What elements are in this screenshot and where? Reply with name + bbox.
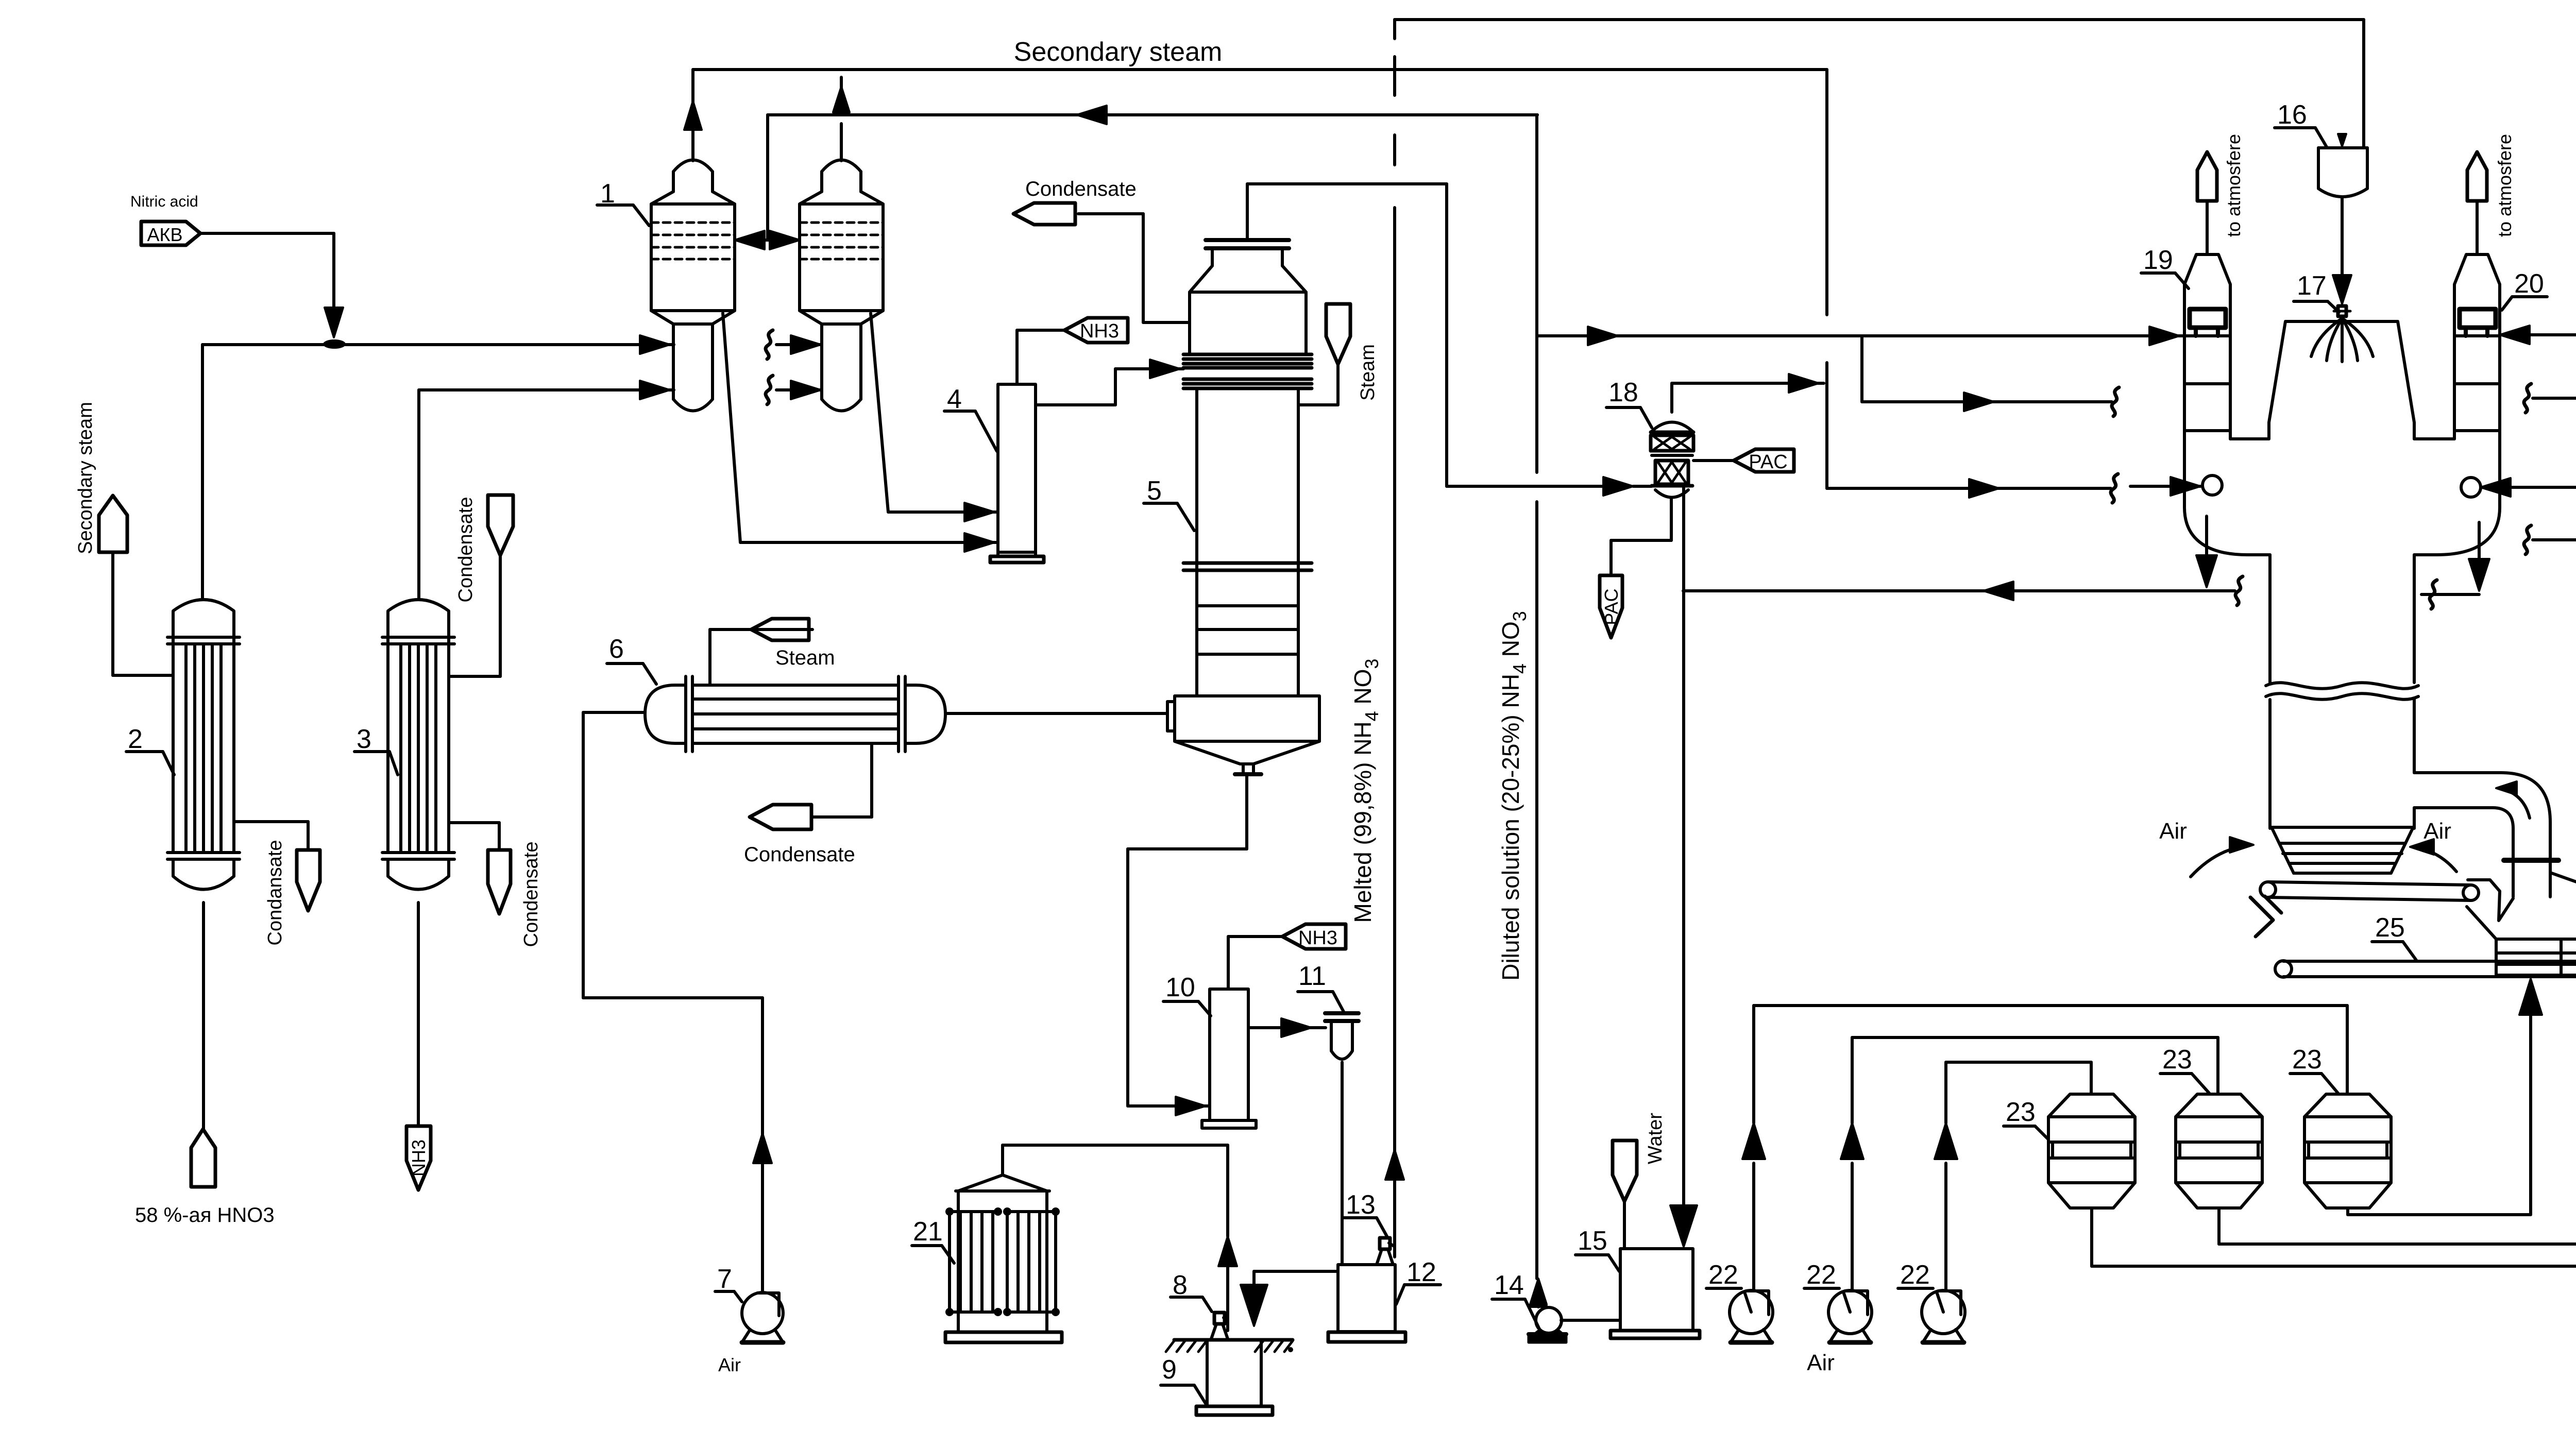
condensate in flag HX3 [488,495,513,555]
svg-text:3: 3 [357,724,371,754]
AKB flag [141,222,200,245]
vapor crossover [735,115,800,249]
NH3 flag vessel10 [1282,924,1346,949]
svg-text:22: 22 [1900,1260,1930,1290]
HX3 condensate flag [488,850,511,914]
column 5 upper body [1190,292,1306,354]
transfer funnel [2468,880,2513,921]
wire HX3 side outlet [449,823,499,850]
pump 22b [1828,1290,1872,1342]
svg-text:58 %-ая HNO3: 58 %-ая HNO3 [135,1204,275,1227]
tank 21 [945,1175,1062,1342]
wire vessel10 to 11 [1248,1018,1326,1037]
pump 22a [1730,1290,1773,1342]
wire HX2 bottom outlet [202,903,205,1129]
vessel 16 [2318,134,2367,197]
svg-text:to atmosfere: to atmosfere [2223,134,2244,237]
squiggle feed reactor 2 a [766,330,773,359]
wire condensate from HX6 [813,743,872,817]
wire pump22b to heater b [1841,1037,2218,1290]
label 21 [912,1217,954,1263]
condensate text b [455,497,477,603]
junction acid [323,339,346,349]
wire hot air to manhole [2130,477,2200,496]
svg-text:PAC: PAC [1601,588,1622,625]
wire vessel11 outlet [1341,1062,1344,1265]
svg-text:5: 5 [1147,476,1162,506]
label 8 [1171,1270,1212,1312]
NH3 flag vessel4 [1064,318,1128,343]
wire steam to column5 [1298,364,1338,405]
air heater 23 c [2304,1094,2391,1208]
label 7 [715,1264,742,1302]
PAC flag bottom [1600,575,1622,638]
wire pump22a to heater c [1742,1006,2347,1290]
label 14 [1492,1270,1539,1329]
vessel 11 [1325,1013,1359,1059]
steam flag HX6 [751,619,835,669]
wire tank9 to tank21 [1003,1145,1237,1331]
svg-text:Steam: Steam [775,646,835,669]
long conveyor 25a [2275,961,2576,977]
svg-text:Air: Air [718,1354,741,1375]
wire condensate column5 [1078,214,1190,322]
svg-text:18: 18 [1608,378,1638,407]
svg-text:7: 7 [717,1264,732,1294]
wire filter18 top [1672,374,1824,412]
label 13 [1344,1190,1387,1236]
svg-text:Condensate: Condensate [1025,178,1137,200]
manhole left [2202,475,2222,495]
svg-text:Air: Air [1807,1350,1835,1375]
label 1 [597,179,649,226]
wire feed reactor 2 b [776,381,822,399]
ITN reactor 1 [651,160,735,411]
ground hatch [1166,1340,1293,1352]
column 5 top flange [1206,240,1289,248]
melter separator [1167,696,1319,741]
wire pump22c to heater a [1935,1062,2091,1290]
label 12 [1396,1257,1440,1304]
svg-text:Air: Air [2424,819,2451,844]
to atmosfere text left [2223,134,2244,237]
HX3 riser [417,390,420,599]
svg-text:21: 21 [913,1217,943,1247]
svg-text:22: 22 [1806,1260,1836,1290]
svg-text:Condensate: Condensate [744,843,855,866]
svg-text:12: 12 [1406,1257,1436,1287]
wire vessel10 NH3 [1228,937,1282,989]
svg-text:16: 16 [2277,100,2307,130]
tank 9 [1196,1340,1273,1415]
label 4 [944,384,997,451]
svg-text:Condensate: Condensate [520,842,542,947]
wire heater a out [2092,1208,2576,1266]
condensate flag HX6 [744,805,855,866]
column 5 flange band B [1183,379,1312,388]
scrubber 20 [2454,152,2500,507]
ITN reactor 2 [800,160,883,411]
sprayer 17 [2311,306,2373,362]
cooler 24 [2467,873,2576,975]
svg-text:2: 2 [128,724,143,754]
svg-text:Condansate: Condansate [264,840,286,946]
right loop upper [2500,326,2576,413]
label 18 [1606,378,1652,428]
squiggle feed reactor 2 b [766,376,773,404]
svg-text:NH3: NH3 [1080,320,1119,342]
svg-text:PAC: PAC [1749,451,1787,473]
wire filter18 bottom [1611,499,1671,575]
svg-text:15: 15 [1578,1226,1607,1256]
wire vessel4 NH3 [1017,330,1064,384]
secondary steam out flag [99,496,127,552]
scrubber 19 [2184,152,2230,507]
column 5 neck [1190,248,1306,292]
tower top plates [2230,437,2454,440]
squiggle hot air line [2111,474,2118,503]
label 9 [1161,1355,1206,1404]
label 22a [1706,1260,1741,1290]
wire NH3 gas to reactor 1 [419,381,674,399]
wire reactor 2 outlet [871,313,998,521]
reactor 2 riser [833,77,850,161]
condensate text HX3 [520,842,542,947]
HX2 condansate flag [297,850,320,911]
cooler air riser 1 [2519,979,2542,1215]
air curved arrow left [2191,837,2253,877]
wire heater b out [2219,1208,2576,1244]
svg-text:23: 23 [2162,1045,2192,1075]
label 23b [2160,1045,2209,1093]
svg-text:NH3: NH3 [408,1139,429,1177]
label 11 [1298,961,1344,1012]
NH3 flag bottom [406,1126,431,1190]
svg-text:25: 25 [2375,913,2405,943]
secondary steam header [693,37,1827,70]
wire secondary steam drop [1827,70,2111,498]
heat exchanger 3 [382,600,454,890]
secondary steam text left [75,402,96,554]
air curved arrow right [2410,839,2456,872]
column 5 flange band A [1183,354,1312,368]
svg-text:22: 22 [1708,1260,1738,1290]
wire HX3 bottom outlet [417,903,420,1126]
svg-text:13: 13 [1346,1190,1376,1220]
wire melt out [1128,774,1247,1115]
svg-text:14: 14 [1494,1270,1524,1300]
tower shoulders [2184,495,2500,555]
pump 22c [1922,1290,1965,1342]
svg-text:Nitric acid: Nitric acid [130,193,198,210]
HNO3 flag [191,1129,215,1187]
column 5 flange band C [1183,563,1312,570]
pump 14 [1529,1307,1566,1342]
wire air pump7 to HX6 [583,712,772,1291]
wire solution to scrubber19 [1537,327,2184,345]
label 5 [1144,476,1194,531]
duct flange [2504,858,2558,863]
label 23c [2290,1045,2338,1093]
label 10 [1163,973,1211,1016]
conveyor under tower [2260,882,2479,900]
wire vessel16 to sprayer [2341,197,2344,198]
tower down arrow right [2469,522,2489,591]
label 22c [1898,1260,1933,1290]
squiggle return line [2235,576,2243,605]
tower stub right [2421,580,2479,609]
vessel 10 [1202,989,1256,1128]
air text tower right [2424,819,2451,844]
label 25a [2372,913,2416,960]
vessel 12 [1328,1265,1405,1342]
label 20 [2502,269,2547,310]
wire reactor 1 outlet [723,313,998,552]
svg-text:17: 17 [2297,271,2327,301]
melt product header to vessel 16 [1395,20,2364,148]
wire condensate to HX3 [449,555,500,676]
heat exchanger 2 [167,600,240,890]
air heater 23 a [2048,1094,2135,1208]
tank 15 [1611,1249,1700,1338]
label 19 [2141,245,2189,288]
duct flow arrow [2496,781,2530,818]
manhole right [2461,478,2481,497]
wire AKB feed [200,233,343,337]
column 5 section lines [1197,606,1298,654]
wire pump14 to tank15 [1561,1319,1620,1322]
water funnel [1613,1140,1637,1249]
wire steam to HX6 [710,629,812,685]
valve 8 [1211,1313,1228,1339]
label 23a [2004,1097,2048,1139]
HX2 riser [201,345,204,599]
svg-text:АКВ: АКВ [147,224,183,245]
steam flag column5 [1326,304,1350,364]
svg-text:10: 10 [1165,973,1195,1002]
air text pumps22 [1807,1350,1835,1375]
label 3 [354,724,398,775]
melter cone [1175,741,1319,774]
svg-text:6: 6 [609,634,624,664]
condansate text HX2 [264,840,286,946]
chute left [2250,896,2281,937]
svg-text:19: 19 [2143,245,2173,275]
steam text column5 [1357,344,1379,401]
svg-text:23: 23 [2292,1045,2322,1075]
svg-text:to atmosfere: to atmosfere [2494,134,2515,237]
svg-text:11: 11 [1298,961,1326,991]
label 6 [607,634,656,684]
wire heater c out [2348,1208,2531,1215]
svg-text:Water: Water [1645,1113,1666,1164]
right loop lower [2524,487,2576,554]
air heater 23 b [2176,1094,2262,1208]
sprayer 17 feed [2333,198,2351,304]
wire HX6 to melter [945,712,1167,715]
label 17 [2294,271,2339,312]
svg-text:Secondary steam: Secondary steam [1014,37,1223,67]
nitric acid text [130,193,198,210]
wire into tank9 [1241,1271,1338,1326]
filter 18 [1651,422,1693,498]
label 15 [1575,1226,1619,1271]
svg-text:NH3: NH3 [1298,927,1337,949]
tower neck [2269,321,2414,439]
wire column5 overhead [1247,184,1652,496]
svg-text:23: 23 [2006,1097,2036,1127]
svg-text:Steam: Steam [1357,344,1379,401]
pump 7 [742,1292,783,1342]
air text pump7 [718,1354,741,1375]
wire branch level2 [1862,336,2112,411]
return solution header [768,106,1537,124]
wire return from tower [1683,582,2235,600]
column 5 lower body [1197,388,1298,696]
condensate flag column5 [1013,178,1137,225]
label 16 [2275,100,2327,148]
diluted NH4NO3 text [1497,611,1530,981]
svg-text:Air: Air [2159,819,2187,844]
label 22b [1804,1260,1839,1290]
tower duct [2414,773,2550,897]
tower down arrow left [2196,516,2217,587]
svg-text:Condensate: Condensate [455,497,477,603]
tower wavy break [2266,683,2418,700]
svg-text:Secondary steam: Secondary steam [75,402,96,554]
svg-text:9: 9 [1162,1355,1177,1385]
melt riser [1385,20,1404,1257]
tower grate [2272,827,2413,873]
to atmosfere text right [2494,134,2515,237]
label 2 [126,724,174,775]
wire feed reactor 2 a [776,335,822,354]
58% HNO3 text [135,1204,275,1227]
wire PAC to filter [1693,459,1734,462]
wire into manhole right [2481,478,2576,497]
wire HX2 side outlet [234,822,308,850]
wire solution to tank15 [1670,486,1697,1247]
valve 13 [1377,1238,1395,1265]
diluted riser [1530,115,1547,1307]
reactor 1 riser [684,70,702,161]
PAC flag right [1734,449,1794,473]
water text [1645,1113,1666,1164]
squiggle branch level2 [2112,387,2119,416]
heat exchanger 6 [645,676,945,752]
air text tower left [2159,819,2187,844]
melted NH4NO3 text [1349,659,1382,923]
wire acid to reactor 1 [202,335,674,354]
tower shaft walls [2270,555,2414,828]
wire vessel4 to column5 [1036,360,1183,405]
svg-text:20: 20 [2514,269,2544,299]
wire steam flag to HX2 [113,552,173,675]
vessel 4 [990,384,1044,563]
